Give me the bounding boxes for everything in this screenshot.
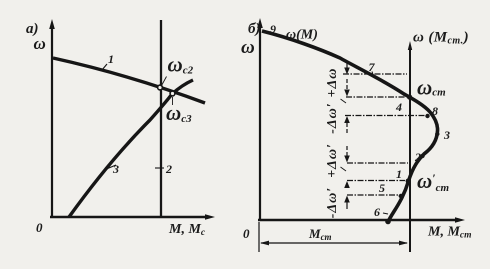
svg-text:8: 8 — [432, 104, 438, 118]
svg-text:9: 9 — [270, 22, 276, 36]
svg-text:6: 6 — [374, 205, 380, 219]
svg-text:3: 3 — [443, 128, 450, 142]
svg-text:0: 0 — [36, 220, 43, 235]
svg-text:M, Mc: M, Mc — [168, 222, 206, 238]
svg-text:0: 0 — [243, 226, 250, 241]
svg-text:ω: ω — [241, 37, 255, 58]
svg-text:б): б) — [248, 21, 260, 37]
svg-text:1: 1 — [396, 167, 402, 181]
svg-text:7: 7 — [369, 60, 376, 74]
svg-text:ω: ω — [34, 34, 46, 53]
svg-text:5: 5 — [379, 181, 385, 195]
svg-text:1: 1 — [108, 52, 114, 66]
svg-text:2: 2 — [165, 162, 172, 176]
svg-text:ω(M): ω(M) — [286, 28, 318, 43]
svg-text:3: 3 — [112, 162, 119, 176]
svg-text:+Δω: +Δω — [325, 68, 340, 98]
svg-text:2: 2 — [414, 150, 421, 164]
svg-text:4: 4 — [395, 100, 402, 114]
svg-text:-Δω′: -Δω′ — [325, 102, 340, 134]
svg-text:-Δω′: -Δω′ — [325, 187, 340, 219]
svg-text:+Δω′: +Δω′ — [325, 143, 340, 178]
